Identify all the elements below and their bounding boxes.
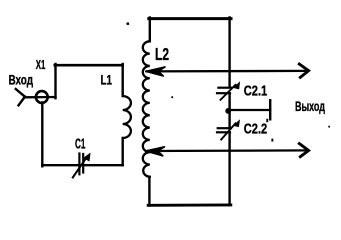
capacitor C2.2 (variable, lower section) [217, 121, 267, 140]
wire upper tap line (L2 tap to output) [146, 64, 309, 77]
wire lower tap line (L2 tap to output) [146, 144, 309, 157]
wire L2 frame right edge, top segment [228, 18, 230, 87]
inductor L1 [101, 72, 131, 139]
capacitor C1 (variable) [73, 136, 90, 178]
wire L2 frame bottom edge [148, 203, 231, 206]
junction node (split-capacitor midpoint) [225, 108, 231, 114]
svg-text:C1: C1 [75, 136, 85, 153]
wire L2 frame right edge, bottom segment [228, 132, 230, 205]
connector X1 (coaxial input socket) [16, 58, 56, 105]
wire input-loop top edge [55, 64, 123, 67]
wire input-loop bottom edge, left segment [42, 164, 79, 166]
svg-text:C2.1: C2.1 [244, 83, 267, 99]
wire L2 upper lead [149, 18, 151, 42]
wire input-loop left edge (X1 body to C1) [41, 103, 43, 167]
svg-text:Выход: Выход [295, 98, 325, 114]
svg-text:L2: L2 [155, 44, 169, 64]
inductor L2 [143, 41, 169, 177]
wire L2 frame top edge [149, 17, 231, 20]
wire X1 centre pin up to input-loop top [54, 64, 56, 98]
wire between C2.1 and C2.2 [228, 93, 230, 128]
wire middle tap stub with end terminal [230, 100, 270, 119]
svg-text:L1: L1 [101, 72, 113, 88]
svg-text:Вход: Вход [9, 72, 34, 88]
wire L1 lower lead [121, 138, 123, 165]
svg-text:X1: X1 [36, 58, 46, 72]
svg-text:C2.2: C2.2 [244, 121, 267, 137]
capacitor C2.1 (variable, upper section) [217, 83, 267, 100]
wire L2 lower lead [148, 177, 150, 206]
wire L1 upper lead [121, 64, 123, 96]
wire input-loop bottom edge, right segment [84, 164, 122, 166]
